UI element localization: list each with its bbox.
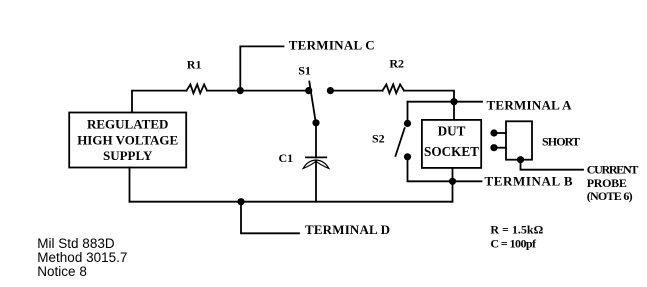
- svg-text:R = 1.5kΩ: R = 1.5kΩ: [490, 222, 543, 236]
- svg-text:SOCKET: SOCKET: [424, 144, 479, 159]
- svg-text:S2: S2: [372, 132, 385, 146]
- wire supply top to R1: [132, 91, 187, 113]
- wire capacitor C1 to bottom rail: [315, 161, 317, 202]
- svg-text:CURRENT: CURRENT: [587, 162, 639, 176]
- wire S2 bottom to terminal B junction: [408, 157, 453, 182]
- svg-text:Notice 8: Notice 8: [37, 264, 87, 279]
- svg-text:TERMINAL C: TERMINAL C: [289, 38, 375, 53]
- wire bottom rail: [130, 201, 453, 203]
- wire terminal B junction down to bottom rail: [452, 181, 454, 201]
- svg-text:PROBE: PROBE: [587, 176, 627, 190]
- wire S1 bottom to capacitor C1: [315, 123, 317, 158]
- svg-text:DUT: DUT: [438, 124, 466, 139]
- svg-text:R2: R2: [389, 57, 404, 71]
- wire R2 to terminal A node: [404, 91, 454, 102]
- switch S1: [298, 63, 334, 126]
- wire short plug to current probe: [521, 160, 584, 170]
- svg-text:SHORT: SHORT: [542, 135, 580, 149]
- wire terminal A line down to S2: [407, 102, 409, 124]
- svg-text:HIGH VOLTAGE: HIGH VOLTAGE: [77, 132, 178, 147]
- svg-text:R1: R1: [187, 58, 202, 72]
- regulated high voltage supply box U1: [69, 113, 186, 168]
- label current probe note: [587, 162, 639, 203]
- svg-text:TERMINAL B: TERMINAL B: [485, 173, 573, 188]
- svg-text:TERMINAL A: TERMINAL A: [487, 98, 573, 113]
- wire R1 to S1: [207, 90, 309, 92]
- short plug across terminals: [490, 121, 580, 163]
- wire terminal A line: [408, 101, 483, 103]
- svg-text:TERMINAL D: TERMINAL D: [305, 222, 390, 237]
- svg-text:SUPPLY: SUPPLY: [103, 148, 153, 163]
- wire to terminal C: [240, 46, 283, 90]
- node terminal C junction: [237, 87, 244, 94]
- resistor R1: [187, 58, 208, 94]
- svg-text:Mil Std 883D: Mil Std 883D: [37, 236, 115, 251]
- svg-text:(NOTE 6): (NOTE 6): [587, 189, 633, 203]
- wire terminal B line: [453, 180, 482, 182]
- wire terminal A node to DUT socket top: [453, 102, 455, 120]
- svg-text:S1: S1: [298, 63, 311, 77]
- svg-text:C1: C1: [279, 151, 294, 165]
- svg-text:Method 3015.7: Method 3015.7: [37, 250, 127, 265]
- component values note: [490, 222, 543, 250]
- node terminal A junction: [450, 98, 457, 105]
- capacitor C1: [279, 151, 329, 168]
- wire supply bottom to rail: [129, 168, 131, 202]
- note mil std 883d: [37, 236, 127, 279]
- switch S2: [372, 120, 411, 161]
- svg-text:C = 100pf: C = 100pf: [490, 236, 537, 250]
- wire S1 to R2: [330, 90, 382, 92]
- svg-text:REGULATED: REGULATED: [87, 116, 168, 131]
- DUT socket box: [422, 120, 481, 168]
- wire to terminal D: [241, 202, 299, 234]
- node terminal D junction: [237, 198, 244, 205]
- wire DUT socket bottom to terminal B junction: [452, 168, 454, 181]
- node terminal B junction: [449, 178, 456, 185]
- resistor R2: [383, 57, 405, 94]
